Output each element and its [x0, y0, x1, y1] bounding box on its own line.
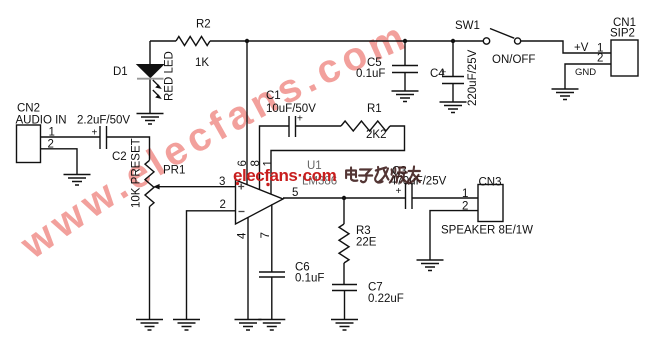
wire D1 cathode to ground	[149, 79, 151, 114]
svg-text:GND: GND	[575, 67, 596, 78]
junction node dots	[245, 39, 455, 200]
ground (C6)	[258, 320, 285, 331]
resistor R1	[341, 121, 390, 131]
connector CN3 body	[478, 185, 503, 222]
svg-text:1: 1	[462, 188, 468, 200]
svg-text:7: 7	[260, 232, 272, 238]
svg-text:C1: C1	[266, 90, 281, 102]
svg-text:R3: R3	[356, 225, 371, 237]
svg-text:10uF/50V: 10uF/50V	[266, 103, 316, 115]
wire C5 branch	[404, 41, 406, 91]
svg-text:AUDIO IN: AUDIO IN	[16, 115, 67, 127]
wire C4 branch	[452, 41, 454, 102]
capacitor C6	[259, 272, 285, 277]
wire PR1 wiper to pin3	[158, 186, 236, 188]
svg-text:3: 3	[219, 176, 225, 188]
svg-text:SPEAKER 8E/1W: SPEAKER 8E/1W	[441, 225, 533, 237]
svg-text:+: +	[297, 114, 303, 125]
wire PR1 bottom to ground	[149, 207, 151, 320]
ground (D1)	[137, 114, 164, 125]
wire CN3 pin2 to ground	[430, 211, 478, 260]
diode D1 (red LED)	[137, 65, 164, 100]
svg-text:10K PRESET: 10K PRESET	[131, 138, 143, 208]
wire pin2 to ground	[187, 211, 236, 320]
op-amp U1	[236, 180, 284, 224]
wire output pin5	[283, 197, 406, 199]
svg-text:SW1: SW1	[455, 20, 480, 32]
svg-text:2K2: 2K2	[366, 129, 386, 141]
wire pin4 to ground	[247, 217, 249, 320]
op-amp plus minus marks	[238, 184, 244, 212]
ground (pin2)	[173, 320, 200, 331]
ground (PR1)	[136, 320, 163, 331]
svg-text:RED LED: RED LED	[164, 51, 176, 101]
capacitor C7	[332, 285, 357, 291]
svg-text:0.1uF: 0.1uF	[356, 68, 385, 80]
svg-text:C2: C2	[112, 151, 127, 163]
capacitor C1	[289, 116, 296, 137]
wire CN2 pin2 to ground	[41, 149, 78, 175]
svg-text:2: 2	[462, 201, 468, 213]
svg-text:0.22uF: 0.22uF	[368, 293, 404, 305]
potentiometer PR1	[145, 160, 154, 206]
wire pin6 to rail	[246, 41, 248, 185]
svg-text:+: +	[441, 67, 446, 77]
svg-text:ON/OFF: ON/OFF	[492, 54, 535, 66]
capacitor C5	[392, 66, 418, 73]
svg-text:SIP2: SIP2	[610, 28, 635, 40]
switch SW1	[483, 38, 520, 44]
svg-text:CN2: CN2	[17, 103, 40, 115]
wire CN2 pin1 to C2	[41, 136, 101, 138]
svg-text:2: 2	[597, 53, 603, 65]
switch SW1 lever	[490, 29, 514, 39]
capacitor C3	[406, 183, 413, 209]
ground (C4)	[440, 102, 467, 113]
svg-text:R1: R1	[367, 103, 382, 115]
svg-text:1: 1	[49, 127, 55, 139]
ground (pin4)	[235, 320, 262, 331]
svg-text:5: 5	[292, 187, 298, 199]
svg-text:R2: R2	[196, 19, 211, 31]
resistor R3	[339, 224, 349, 263]
svg-text:+: +	[396, 186, 402, 197]
logo descender dots	[236, 182, 270, 186]
svg-text:C7: C7	[368, 282, 383, 294]
resistor R2	[176, 37, 210, 46]
wire C2 to PR1	[107, 137, 150, 160]
svg-text:D1: D1	[113, 66, 128, 78]
wire C3 to CN3 pin1	[412, 197, 478, 199]
svg-text:1K: 1K	[195, 57, 209, 69]
svg-text:2.2uF/50V: 2.2uF/50V	[77, 115, 130, 127]
svg-text:CN3: CN3	[479, 177, 502, 189]
wire R3 branch	[343, 198, 345, 285]
svg-text:0.1uF: 0.1uF	[295, 273, 324, 285]
wire C1 to R1	[296, 125, 342, 127]
svg-text:4: 4	[237, 232, 249, 239]
ground (speaker)	[417, 260, 444, 271]
ground (C7)	[331, 320, 358, 331]
svg-text:PR1: PR1	[163, 165, 185, 177]
logo chinese characters	[346, 167, 420, 184]
svg-text:+: +	[92, 128, 98, 139]
wire C6 to ground	[271, 277, 273, 320]
ground (C5)	[392, 91, 419, 102]
svg-text:elecfans·com: elecfans·com	[233, 166, 337, 185]
capacitor C2	[100, 126, 107, 149]
wire SW1 to CN1 pin1	[521, 41, 611, 53]
connector CN2 body	[17, 125, 41, 163]
ground (CN1)	[552, 89, 579, 100]
wire CN1 pin2 to ground	[565, 64, 611, 89]
svg-text:+V: +V	[574, 42, 589, 54]
potentiometer PR1 wiper arrow	[153, 184, 159, 190]
wire D1 branch	[149, 41, 151, 65]
svg-text:2: 2	[220, 199, 226, 211]
wire pin8 to C1	[260, 126, 290, 190]
capacitor C4	[442, 77, 464, 84]
connector CN1 body	[611, 40, 638, 76]
ground (CN2)	[64, 175, 91, 186]
svg-text:22E: 22E	[356, 237, 377, 249]
svg-text:2: 2	[48, 139, 54, 151]
wire C7 to ground	[344, 291, 346, 320]
wire pin7 to C6	[271, 204, 273, 272]
svg-text:220uF/25V: 220uF/25V	[467, 49, 479, 106]
wire R1 to pin1	[271, 126, 405, 195]
wire top supply rail	[150, 40, 483, 42]
